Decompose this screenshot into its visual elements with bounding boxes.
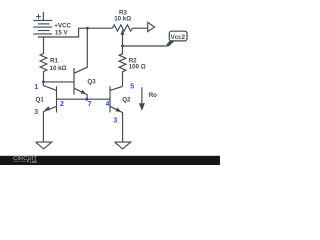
junction dot R3 wiper/R2/Vcc2 — [121, 45, 124, 48]
watermark bolt — [27, 160, 29, 163]
junction dot node 1 — [42, 81, 45, 84]
Q1 emitter arrowhead — [44, 106, 50, 110]
wire bus nodes 2-7-4 — [57, 98, 111, 100]
svg-text:Q2: Q2 — [122, 97, 131, 104]
svg-text:Q3: Q3 — [87, 78, 96, 85]
svg-text:Ro: Ro — [149, 92, 157, 99]
svg-text:100 Ω: 100 Ω — [129, 64, 146, 71]
Q3 emitter arrowhead — [81, 90, 86, 94]
svg-text:Vcc2: Vcc2 — [171, 34, 186, 41]
transistor Q2 emitter — [110, 106, 123, 142]
battery V1 long plate 2 — [33, 26, 52, 28]
svg-text:3: 3 — [34, 109, 38, 116]
output resistance arrow Ro line — [141, 87, 143, 103]
svg-text:10 kΩ: 10 kΩ — [114, 15, 131, 22]
buffer triangle output marker — [148, 22, 155, 31]
transistor Q2 bar — [109, 86, 111, 112]
junction dot rail/Q3 — [86, 27, 89, 30]
battery V1 long plate 3 — [33, 33, 52, 35]
battery V1 long plate 1 — [33, 19, 52, 21]
svg-text:+VCC: +VCC — [54, 22, 71, 29]
wire Q3 collector riser — [74, 28, 87, 73]
junction dot node 7 — [86, 98, 89, 101]
svg-text:LAB: LAB — [30, 160, 38, 164]
Q2 emitter arrowhead — [116, 108, 122, 112]
transistor Q2 collector diagonal — [110, 86, 123, 90]
wire rail right of R3 — [132, 27, 147, 29]
resistor R3 potentiometer body — [113, 25, 133, 31]
resistor R1 — [40, 37, 47, 82]
watermark dash row — [14, 160, 27, 162]
svg-text:5: 5 — [130, 84, 134, 91]
ground 2 — [115, 142, 131, 149]
watermark bar — [0, 156, 220, 165]
R3 wiper arrowhead — [121, 29, 125, 35]
wire node 1 to Q3 base — [43, 81, 74, 83]
Ro arrowhead — [139, 103, 145, 111]
transistor Q1 collector — [43, 82, 56, 91]
battery V1 top lead — [42, 12, 44, 21]
svg-text:15 V: 15 V — [55, 30, 69, 37]
R3 wiper stem — [122, 34, 124, 46]
svg-text:1: 1 — [34, 84, 38, 91]
svg-text:R1: R1 — [50, 57, 58, 64]
transistor Q1 bar — [56, 86, 58, 112]
svg-text:Q1: Q1 — [36, 97, 45, 104]
transistor Q3 bar — [73, 68, 75, 95]
wire to Vcc2 flag — [123, 45, 166, 47]
wire battery bottom plate to top rail — [38, 28, 113, 37]
transistor Q1 emitter — [43, 106, 56, 142]
svg-text:10 kΩ: 10 kΩ — [50, 65, 67, 72]
ground 1 — [36, 142, 52, 149]
svg-text:2: 2 — [60, 101, 64, 108]
svg-text:7: 7 — [88, 101, 92, 108]
svg-text:3: 3 — [113, 117, 117, 124]
Vcc2 flag tail — [165, 41, 175, 47]
battery V1 short plate 1 — [38, 23, 50, 25]
svg-text:4: 4 — [106, 101, 110, 108]
resistor R2 — [119, 46, 126, 86]
battery V1 plus sign — [36, 14, 41, 19]
transistor Q3 emitter — [74, 88, 87, 99]
Vcc2 flag box — [169, 31, 187, 41]
battery V1 short plate 2 — [38, 30, 50, 32]
